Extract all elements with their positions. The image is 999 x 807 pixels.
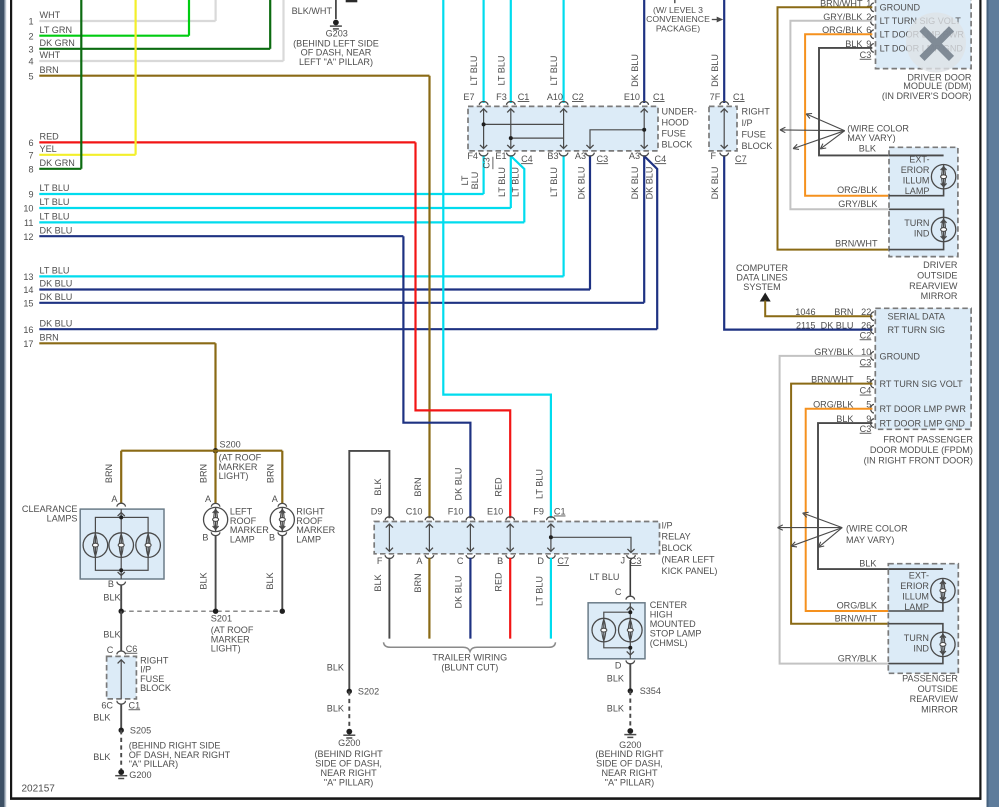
wire into EXT lamp (driver) bbox=[889, 154, 944, 156]
svg-text:FRONT PASSENGER: FRONT PASSENGER bbox=[883, 435, 973, 445]
svg-text:LT BLU: LT BLU bbox=[469, 56, 479, 86]
svg-text:ORG/BLK: ORG/BLK bbox=[837, 185, 877, 195]
svg-text:"A" PILLAR): "A" PILLAR) bbox=[324, 777, 373, 787]
wire LT BLU fuse E1 to row10 bbox=[510, 155, 512, 208]
svg-text:4: 4 bbox=[28, 57, 33, 67]
svg-text:11: 11 bbox=[24, 218, 33, 228]
svg-text:GROUND: GROUND bbox=[880, 351, 921, 361]
DDM pin 9 LT DOOR LMP GND bbox=[871, 44, 874, 53]
svg-text:ORG/BLK: ORG/BLK bbox=[837, 601, 877, 611]
driver outside rearview mirror box bbox=[889, 147, 958, 256]
svg-text:F10: F10 bbox=[448, 507, 464, 517]
svg-text:TURN: TURN bbox=[904, 633, 929, 643]
svg-text:(IN DRIVER'S DOOR): (IN DRIVER'S DOOR) bbox=[882, 91, 972, 101]
svg-text:MAY VARY): MAY VARY) bbox=[847, 133, 895, 143]
svg-text:15: 15 bbox=[23, 298, 33, 308]
wire LT BLU fuse B3 to row13 bbox=[562, 155, 564, 276]
wire LT BLU to fuse F3 bbox=[510, 0, 512, 103]
fuse element vertical bbox=[643, 109, 645, 149]
svg-text:DK BLU: DK BLU bbox=[576, 167, 586, 200]
svg-text:S201: S201 bbox=[211, 614, 232, 624]
svg-text:C1: C1 bbox=[129, 700, 141, 710]
svg-text:3: 3 bbox=[28, 44, 33, 54]
svg-text:13: 13 bbox=[23, 272, 33, 282]
svg-text:(CHMSL): (CHMSL) bbox=[650, 638, 688, 648]
under-hood fuse block U1 bbox=[468, 106, 658, 150]
front passenger door module (FPDM) box bbox=[875, 308, 971, 429]
wire DK GRN row8 vertical to top bbox=[80, 0, 82, 169]
svg-text:WHT: WHT bbox=[40, 50, 61, 60]
watermark circle bbox=[906, 13, 966, 73]
svg-text:(WIRE COLOR: (WIRE COLOR bbox=[846, 523, 908, 533]
relay terminal F10/C bbox=[466, 517, 475, 520]
DDM pin 2 LT TURN SIG VOLT bbox=[870, 17, 873, 26]
svg-text:LT BLU: LT BLU bbox=[549, 56, 559, 86]
wire GRY/BLK DDM pin2 bbox=[790, 21, 889, 210]
svg-text:LAMP: LAMP bbox=[905, 186, 930, 196]
TURN IND lamp (passenger) bbox=[931, 632, 955, 656]
svg-text:BRN: BRN bbox=[40, 65, 59, 75]
svg-text:FUSE: FUSE bbox=[742, 130, 766, 140]
watermark X bbox=[922, 29, 952, 59]
wire WHT row1 vertical to top bbox=[215, 0, 217, 21]
svg-text:S205: S205 bbox=[130, 725, 151, 735]
wire YEL row7 vertical to top bbox=[135, 0, 137, 155]
svg-text:BLK: BLK bbox=[103, 592, 120, 602]
svg-text:IND: IND bbox=[913, 643, 929, 653]
wire into EXT lamp (passenger) bbox=[888, 568, 943, 570]
brace TRAILER WIRING (BLUNT CUT) bbox=[384, 642, 556, 651]
svg-text:(NEAR LEFT: (NEAR LEFT bbox=[662, 555, 715, 565]
svg-text:LT BLU: LT BLU bbox=[40, 183, 70, 193]
CHMSL terminal C bbox=[626, 596, 635, 599]
DDM pin 1 GROUND bbox=[870, 3, 873, 12]
svg-text:C3: C3 bbox=[860, 50, 872, 60]
wire BLK DDM pin9 bbox=[819, 48, 944, 165]
svg-text:YEL: YEL bbox=[40, 144, 57, 154]
svg-text:RIGHT: RIGHT bbox=[742, 107, 771, 117]
svg-text:OUTSIDE: OUTSIDE bbox=[918, 684, 958, 694]
svg-text:LAMP: LAMP bbox=[904, 602, 929, 612]
svg-text:LT BLU: LT BLU bbox=[534, 576, 544, 606]
wire BRN row17 down to S200 bbox=[214, 343, 216, 450]
svg-text:MAY VARY): MAY VARY) bbox=[846, 535, 894, 545]
wire BLK clearance to S201 junction bbox=[120, 585, 122, 611]
svg-text:BRN: BRN bbox=[199, 464, 209, 483]
svg-text:LEFT "A" PILLAR): LEFT "A" PILLAR) bbox=[299, 57, 373, 67]
svg-text:(BLUNT CUT): (BLUNT CUT) bbox=[441, 662, 498, 672]
svg-text:C1: C1 bbox=[653, 92, 665, 102]
svg-text:F: F bbox=[710, 151, 716, 161]
relay terminal C10/A bbox=[425, 517, 434, 520]
svg-text:LT BLU: LT BLU bbox=[497, 167, 507, 197]
svg-text:BLK: BLK bbox=[103, 630, 120, 640]
svg-text:FUSE: FUSE bbox=[662, 129, 686, 139]
svg-text:BLK: BLK bbox=[327, 663, 344, 673]
svg-text:BRN/WHT: BRN/WHT bbox=[835, 238, 878, 248]
svg-text:D9: D9 bbox=[371, 507, 383, 517]
svg-text:RT DOOR LMP PWR: RT DOOR LMP PWR bbox=[880, 404, 967, 414]
clearance bulb 3 bbox=[136, 533, 161, 558]
svg-text:LT GRN: LT GRN bbox=[40, 25, 73, 35]
fuse block top terminal bbox=[559, 101, 568, 104]
driver door module (DDM) box bbox=[876, 0, 972, 69]
clearance bulb 2 bbox=[109, 533, 134, 558]
svg-text:7F: 7F bbox=[710, 92, 721, 102]
svg-text:LT BLU: LT BLU bbox=[534, 469, 544, 499]
svg-text:GRY/BLK: GRY/BLK bbox=[838, 653, 877, 663]
svg-text:B3: B3 bbox=[547, 151, 558, 161]
svg-text:BLK: BLK bbox=[859, 144, 876, 154]
svg-text:COMPUTER: COMPUTER bbox=[736, 263, 788, 273]
svg-text:GROUND: GROUND bbox=[880, 3, 921, 13]
wire BLK roof marker to S201 bbox=[215, 536, 217, 611]
svg-text:202157: 202157 bbox=[22, 784, 56, 795]
svg-text:C3: C3 bbox=[597, 154, 609, 164]
wire ORG/BLK DDM pin6 bbox=[805, 34, 889, 196]
svg-text:DK BLU: DK BLU bbox=[40, 279, 73, 289]
CHMSL bulb left bbox=[592, 618, 616, 642]
wire LT GRN row2 vertical to top bbox=[188, 0, 190, 36]
wire BLK fuse 6C to S205 bbox=[120, 704, 122, 730]
svg-text:HOOD: HOOD bbox=[662, 118, 690, 128]
wire LT BLU to fuse E7 bbox=[483, 0, 485, 103]
left window edge bar bbox=[0, 0, 5, 807]
svg-text:E7: E7 bbox=[463, 92, 474, 102]
svg-text:S200: S200 bbox=[220, 439, 241, 449]
svg-text:16: 16 bbox=[23, 325, 33, 335]
svg-text:RED: RED bbox=[494, 477, 504, 497]
svg-text:BLOCK: BLOCK bbox=[662, 543, 693, 553]
splice S201 dashed tie bbox=[121, 610, 282, 612]
wire DK BLU to fuse 7F bbox=[723, 0, 725, 103]
svg-text:C: C bbox=[457, 556, 464, 566]
fuse block bottom terminal bbox=[479, 153, 488, 156]
svg-text:RT TURN SIG: RT TURN SIG bbox=[888, 325, 946, 335]
splice S205 bbox=[119, 728, 124, 733]
svg-text:B: B bbox=[202, 532, 208, 542]
svg-text:DK BLU: DK BLU bbox=[454, 468, 464, 501]
wire BLK S205 to G200 (dashed) bbox=[120, 730, 122, 772]
svg-text:DK BLU: DK BLU bbox=[40, 225, 73, 235]
svg-text:A3: A3 bbox=[629, 151, 640, 161]
svg-text:EXT-: EXT- bbox=[909, 571, 929, 581]
wire BRN row5 down to relay C10 bbox=[428, 76, 430, 519]
EXT-ERIOR ILLUM LAMP (driver) bbox=[931, 165, 955, 189]
fuse element vertical bbox=[510, 109, 512, 149]
note W/ LEVEL 3 CONVENIENCE PACKAGE bbox=[674, 0, 676, 3]
svg-text:DK BLU: DK BLU bbox=[710, 54, 720, 87]
passenger outside rearview mirror box bbox=[888, 564, 958, 674]
svg-text:KICK PANEL): KICK PANEL) bbox=[662, 566, 718, 576]
svg-text:BLK: BLK bbox=[607, 703, 624, 713]
wire LT BLU from top to relay F9 bbox=[443, 0, 551, 518]
diagram frame left border bbox=[10, 0, 12, 799]
svg-text:DATA LINES: DATA LINES bbox=[736, 273, 787, 283]
svg-text:BLK/WHT: BLK/WHT bbox=[292, 6, 333, 16]
CHMSL bulb right bbox=[619, 618, 643, 642]
EXT-ERIOR ILLUM LAMP (passenger) bbox=[931, 578, 955, 602]
ground G200 (S354) bbox=[627, 728, 633, 734]
svg-text:BRN: BRN bbox=[265, 464, 275, 483]
svg-text:1: 1 bbox=[28, 17, 33, 27]
svg-text:LAMPS: LAMPS bbox=[47, 514, 78, 524]
svg-text:RT TURN SIG VOLT: RT TURN SIG VOLT bbox=[880, 379, 964, 389]
fuse block bottom terminal bbox=[559, 153, 568, 156]
svg-text:12: 12 bbox=[23, 232, 33, 242]
relay terminal D9/F bbox=[385, 517, 394, 520]
svg-text:LAMP: LAMP bbox=[230, 535, 255, 545]
svg-text:E10: E10 bbox=[624, 92, 640, 102]
svg-text:WHT: WHT bbox=[40, 10, 61, 20]
svg-text:C10: C10 bbox=[406, 507, 423, 517]
svg-text:BLK: BLK bbox=[327, 703, 344, 713]
svg-text:C1: C1 bbox=[733, 92, 745, 102]
fuse internal bus E7-A10 bbox=[484, 123, 564, 125]
svg-text:TRAILER WIRING: TRAILER WIRING bbox=[432, 652, 507, 662]
svg-text:F9: F9 bbox=[533, 507, 544, 517]
fuse block top terminal bbox=[479, 102, 488, 105]
svg-text:LT: LT bbox=[460, 175, 470, 185]
wire BRN/WHT DDM pin1 bbox=[778, 7, 890, 249]
svg-text:I/P: I/P bbox=[742, 118, 753, 128]
svg-text:BRN/WHT: BRN/WHT bbox=[835, 613, 878, 623]
wire BLK S354 to G200 (dashed) bbox=[629, 691, 631, 731]
svg-text:C7: C7 bbox=[557, 556, 569, 566]
diagram frame right border bbox=[979, 0, 981, 800]
wire into TURN IND (passenger) bbox=[888, 624, 943, 633]
svg-text:(WIRE COLOR: (WIRE COLOR bbox=[847, 123, 909, 133]
svg-text:ERIOR: ERIOR bbox=[901, 165, 930, 175]
svg-text:REARVIEW: REARVIEW bbox=[910, 694, 959, 704]
wire DK BLU fuse F to FPDM pin26 bbox=[724, 155, 872, 329]
svg-text:22: 22 bbox=[861, 307, 871, 317]
wire ORG/BLK FPDM pin5 (C3) bbox=[806, 409, 889, 611]
svg-text:BLK: BLK bbox=[199, 572, 209, 589]
trailer wiring stub bbox=[550, 558, 552, 639]
svg-text:LAMP: LAMP bbox=[296, 535, 321, 545]
svg-text:C1: C1 bbox=[554, 507, 566, 517]
svg-text:SYSTEM: SYSTEM bbox=[743, 282, 780, 292]
svg-text:LT BLU: LT BLU bbox=[511, 167, 521, 197]
svg-text:C6: C6 bbox=[126, 644, 138, 654]
clearance lamps box bbox=[80, 509, 164, 579]
svg-text:UNDER-: UNDER- bbox=[662, 106, 697, 116]
svg-text:LT BLU: LT BLU bbox=[40, 266, 70, 276]
svg-text:1046: 1046 bbox=[795, 307, 815, 317]
FPDM pin 22 SERIAL DATA bbox=[871, 312, 874, 321]
wire BLK FPDM pin9 bbox=[818, 423, 943, 578]
svg-text:DOOR MODULE (FPDM): DOOR MODULE (FPDM) bbox=[870, 445, 973, 455]
wire RED row6 to relay E10 bbox=[416, 142, 511, 518]
trailer wiring stub bbox=[509, 558, 511, 639]
svg-text:5: 5 bbox=[28, 71, 33, 81]
wire LT BLU relay J to CHMSL C bbox=[630, 558, 632, 560]
svg-text:DK BLU: DK BLU bbox=[454, 576, 464, 609]
wire BRN/WHT FPDM pin5 bbox=[791, 384, 888, 624]
wire BRN S200 branches bbox=[121, 450, 282, 452]
svg-text:RED: RED bbox=[494, 572, 504, 592]
wire DK BLU fuse A3-C4 to row15 bbox=[643, 155, 645, 303]
FPDM pin 26 RT TURN SIG bbox=[871, 325, 874, 334]
svg-text:BLK: BLK bbox=[607, 673, 624, 683]
svg-text:B: B bbox=[108, 579, 114, 589]
svg-text:G200: G200 bbox=[129, 770, 151, 780]
ground G203 bbox=[333, 20, 339, 26]
svg-text:BLOCK: BLOCK bbox=[140, 683, 171, 693]
relay internal F9 to J bbox=[551, 537, 631, 552]
FPDM pin 5 RT DOOR LMP PWR bbox=[871, 404, 874, 413]
svg-text:BLK: BLK bbox=[265, 572, 275, 589]
svg-text:OUTSIDE: OUTSIDE bbox=[917, 270, 957, 280]
svg-text:C: C bbox=[615, 587, 622, 597]
wire BLK/WHT to G203 bbox=[335, 0, 337, 19]
svg-text:(IN RIGHT FRONT DOOR): (IN RIGHT FRONT DOOR) bbox=[864, 456, 973, 466]
svg-text:DK GRN: DK GRN bbox=[40, 38, 75, 48]
svg-text:ILLUM: ILLUM bbox=[903, 175, 930, 185]
svg-text:C3: C3 bbox=[860, 357, 872, 367]
svg-text:BRN: BRN bbox=[413, 573, 423, 592]
fuse element vertical bbox=[483, 109, 485, 149]
wire DK GRN row3 vertical to top bbox=[269, 0, 271, 49]
svg-text:BLOCK: BLOCK bbox=[742, 141, 773, 151]
svg-text:GRY/BLK: GRY/BLK bbox=[838, 199, 877, 209]
TURN IND lamp (driver) bbox=[931, 217, 955, 241]
svg-text:2: 2 bbox=[28, 31, 33, 41]
svg-text:SERIAL DATA: SERIAL DATA bbox=[888, 312, 946, 322]
wire BLK relay D9 up-over-down to S202 bbox=[349, 451, 389, 691]
svg-text:BLOCK: BLOCK bbox=[662, 140, 693, 150]
ground G200 (S202) bbox=[346, 729, 352, 735]
splice S200 bbox=[213, 448, 218, 453]
partial component cut at top edge bbox=[346, 0, 358, 2]
svg-text:PACKAGE): PACKAGE) bbox=[656, 23, 700, 33]
svg-text:C4: C4 bbox=[521, 154, 533, 164]
svg-text:10: 10 bbox=[23, 204, 33, 214]
fuse block bottom terminal bbox=[586, 153, 595, 156]
svg-text:7: 7 bbox=[28, 150, 33, 160]
FPDM pin 5 RT TURN SIG VOLT bbox=[871, 379, 874, 388]
svg-text:LIGHT): LIGHT) bbox=[211, 644, 241, 654]
svg-text:DK GRN: DK GRN bbox=[40, 158, 75, 168]
svg-text:BRN: BRN bbox=[834, 307, 853, 317]
svg-text:DK BLU: DK BLU bbox=[40, 318, 73, 328]
fuse internal bus F3-A10 bbox=[511, 137, 564, 139]
svg-text:RELAY: RELAY bbox=[662, 532, 691, 542]
svg-text:BRN: BRN bbox=[104, 464, 114, 483]
svg-text:14: 14 bbox=[23, 285, 33, 295]
svg-text:BLK: BLK bbox=[93, 713, 110, 723]
svg-text:C: C bbox=[107, 645, 114, 655]
right I/P fuse block (bottom) bbox=[107, 656, 137, 699]
CHMSL terminal D bbox=[626, 660, 635, 663]
svg-text:A: A bbox=[111, 494, 118, 504]
svg-text:BLK: BLK bbox=[373, 574, 383, 591]
clearance bulb 1 bbox=[83, 533, 108, 558]
wire LT BLU fuse E1 branch to row11 bbox=[511, 156, 525, 222]
svg-text:LT BLU: LT BLU bbox=[497, 55, 507, 85]
ground G200 (S205) bbox=[118, 769, 124, 775]
svg-text:DK BLU: DK BLU bbox=[630, 167, 640, 200]
svg-text:C4: C4 bbox=[655, 154, 667, 164]
svg-text:(BEHIND RIGHT: (BEHIND RIGHT bbox=[314, 749, 383, 759]
svg-text:LT BLU: LT BLU bbox=[40, 212, 70, 222]
relay terminal E10/B bbox=[506, 517, 515, 520]
svg-text:BLK: BLK bbox=[373, 478, 383, 495]
svg-text:LT BLU: LT BLU bbox=[40, 197, 70, 207]
svg-text:A3: A3 bbox=[575, 151, 586, 161]
wire BLK S201 to right I/P fuse block bbox=[120, 611, 122, 650]
svg-text:S354: S354 bbox=[640, 686, 661, 696]
svg-text:LT BLU: LT BLU bbox=[590, 572, 620, 582]
svg-text:17: 17 bbox=[23, 339, 33, 349]
svg-text:8: 8 bbox=[28, 164, 33, 174]
svg-text:LT BLU: LT BLU bbox=[549, 167, 559, 197]
wire BLK CHMSL D to S354 bbox=[629, 664, 631, 691]
svg-text:MODULE (DDM): MODULE (DDM) bbox=[903, 81, 971, 91]
svg-text:B: B bbox=[497, 556, 503, 566]
svg-text:ILLUM: ILLUM bbox=[902, 591, 929, 601]
svg-text:PASSENGER: PASSENGER bbox=[902, 674, 958, 684]
svg-text:I/P: I/P bbox=[662, 520, 673, 530]
wire DK BLU fuse A3-C3 to row14 bbox=[589, 155, 591, 289]
FPDM pin 10 GROUND bbox=[871, 352, 874, 361]
svg-text:CLEARANCE: CLEARANCE bbox=[22, 504, 78, 514]
svg-text:F3: F3 bbox=[496, 92, 507, 102]
svg-text:G203: G203 bbox=[326, 29, 348, 39]
svg-text:2115: 2115 bbox=[796, 321, 816, 331]
right scrollbar slate bar bbox=[987, 0, 999, 807]
wire DK BLU row12 to relay F10 bbox=[403, 236, 470, 518]
wire LT BLU fuse F4 to row9 bbox=[483, 155, 485, 194]
svg-text:F4: F4 bbox=[467, 151, 478, 161]
svg-text:C7: C7 bbox=[735, 154, 747, 164]
right I/P fuse block (top) bbox=[709, 106, 737, 150]
svg-text:A: A bbox=[416, 556, 423, 566]
svg-text:E1: E1 bbox=[495, 151, 506, 161]
svg-text:(BEHIND RIGHT: (BEHIND RIGHT bbox=[595, 749, 664, 759]
trailer wiring stub bbox=[388, 558, 390, 639]
svg-text:RED: RED bbox=[40, 132, 60, 142]
svg-text:DK BLU: DK BLU bbox=[40, 292, 73, 302]
wire DK BLU fuse A3-C4 branch to row16 bbox=[644, 156, 657, 329]
relay terminal F9/D bbox=[547, 517, 556, 520]
svg-text:DK BLU: DK BLU bbox=[644, 167, 654, 200]
svg-text:9: 9 bbox=[28, 190, 33, 200]
svg-text:MIRROR: MIRROR bbox=[921, 291, 958, 301]
svg-text:DRIVER: DRIVER bbox=[923, 260, 958, 270]
svg-text:C3: C3 bbox=[860, 424, 872, 434]
svg-text:C3: C3 bbox=[630, 556, 642, 566]
fuse internal branch E10 to A3-C3 bbox=[590, 130, 644, 149]
svg-text:BRN: BRN bbox=[40, 333, 59, 343]
wire GRY/BLK FPDM pin10 bbox=[780, 356, 889, 664]
diagram frame bottom border bbox=[10, 797, 981, 800]
FPDM pin 9 RT DOOR LMP GND bbox=[871, 419, 874, 428]
svg-text:BLU: BLU bbox=[470, 172, 480, 190]
svg-text:26: 26 bbox=[861, 321, 871, 331]
svg-text:D: D bbox=[615, 660, 622, 670]
svg-text:IND: IND bbox=[914, 228, 930, 238]
svg-text:A: A bbox=[272, 494, 279, 504]
svg-text:EXT-: EXT- bbox=[909, 155, 929, 165]
svg-text:"A" PILLAR): "A" PILLAR) bbox=[605, 777, 654, 787]
svg-text:DK BLU: DK BLU bbox=[630, 54, 640, 87]
svg-text:DK BLU: DK BLU bbox=[710, 167, 720, 200]
trailer wiring stub bbox=[469, 558, 471, 639]
svg-text:ERIOR: ERIOR bbox=[900, 581, 929, 591]
svg-text:DK BLU: DK BLU bbox=[821, 321, 854, 331]
